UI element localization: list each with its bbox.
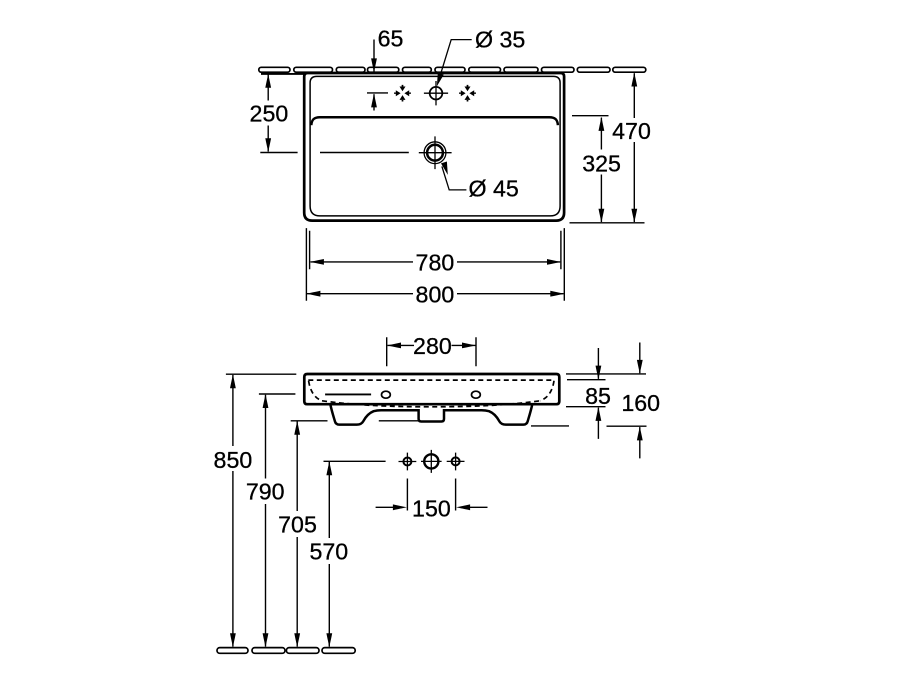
basin bowl front edge (plan view)	[311, 117, 558, 125]
fixing hole left crosshair	[399, 453, 417, 471]
extension line 850	[226, 373, 296, 375]
svg-text:Ø 45: Ø 45	[469, 176, 519, 202]
dimension 250	[250, 74, 289, 152]
hidden bowl top dashed line	[308, 379, 554, 381]
basin outer outline (plan view)	[304, 73, 564, 221]
svg-text:Ø 35: Ø 35	[475, 27, 525, 53]
hidden bowl left dashed curve	[309, 381, 322, 401]
dimension 570	[309, 461, 348, 647]
fixing hole left (Ø)	[403, 458, 411, 466]
fixing slot right	[472, 391, 481, 398]
dimension 280	[387, 333, 476, 359]
dimension 780	[310, 250, 561, 276]
svg-text:150: 150	[412, 496, 451, 522]
extension line 160 top	[566, 373, 646, 375]
dimension 790	[246, 394, 285, 647]
extension lines 280	[387, 337, 476, 366]
svg-text:65: 65	[378, 26, 404, 52]
overflow crosshair	[419, 136, 452, 169]
extension line 470/325 bottom	[570, 222, 645, 224]
svg-text:325: 325	[582, 151, 621, 177]
svg-text:790: 790	[246, 479, 285, 505]
dimension 850	[214, 374, 253, 647]
overflow hole Ø45 inner circle	[427, 145, 443, 161]
dimension 150	[376, 496, 488, 522]
svg-text:780: 780	[416, 250, 455, 276]
wall line (hatched wall dashes, plan view)	[259, 67, 646, 72]
extension lines width 780	[310, 231, 561, 270]
svg-text:160: 160	[621, 390, 660, 416]
mounting bracket outline (front view)	[330, 404, 532, 424]
fixing hole right (Ø)	[452, 457, 460, 465]
extension line 705	[291, 420, 419, 422]
leader and label Ø35	[437, 27, 525, 87]
basin inner rim line (plan view)	[310, 76, 560, 216]
fixing hole right crosshair	[447, 453, 465, 471]
dimension 160	[621, 343, 660, 459]
extension lines 160 bottom	[531, 425, 647, 427]
tap hole circle Ø35	[430, 87, 443, 100]
tap hole axis extension tick	[367, 92, 388, 94]
extension line 790	[259, 393, 296, 395]
shelf edge line (front view)	[325, 393, 371, 395]
fixing slot left	[382, 391, 391, 398]
leader and label Ø45	[441, 162, 519, 202]
dimension 705	[278, 421, 317, 648]
wall base line left	[261, 73, 305, 75]
extension lines 150	[407, 479, 455, 511]
overflow hole Ø45 outer circle	[424, 142, 446, 164]
floor line (hatched floor dashes)	[217, 648, 355, 654]
svg-text:470: 470	[612, 118, 651, 144]
hidden bowl bottom dashed line	[322, 401, 540, 407]
optional tap hole cross left	[394, 85, 411, 102]
extension line 85 top	[567, 379, 606, 381]
dimension 65	[371, 26, 403, 111]
svg-text:85: 85	[585, 383, 611, 409]
centerline through overflow	[260, 152, 409, 154]
hidden bowl right dashed curve	[540, 381, 554, 401]
svg-text:280: 280	[413, 333, 452, 359]
drain hole crosshair	[421, 450, 442, 473]
drain hole center	[424, 454, 438, 468]
extension lines width 800	[306, 228, 564, 301]
dimension 85	[585, 348, 611, 439]
dimension 325	[582, 117, 621, 223]
svg-text:850: 850	[214, 447, 253, 473]
extension line 85 bottom	[566, 406, 606, 408]
extension line 570	[324, 460, 386, 462]
dimension 470	[612, 73, 651, 223]
optional tap hole cross right	[459, 85, 476, 102]
basin body outline (front view)	[304, 374, 559, 404]
tap hole crosshair	[424, 81, 448, 105]
extension line 325 top	[572, 115, 609, 117]
svg-text:800: 800	[416, 282, 455, 308]
svg-text:250: 250	[250, 101, 289, 127]
svg-text:705: 705	[278, 512, 317, 538]
svg-text:570: 570	[309, 539, 348, 565]
dimension 800	[306, 282, 564, 308]
